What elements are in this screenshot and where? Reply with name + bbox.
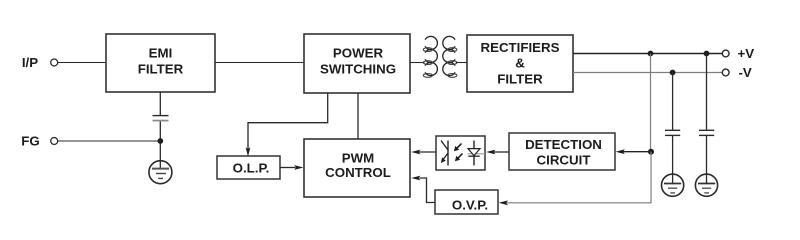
svg-text:FILTER: FILTER (497, 72, 543, 87)
block PWM CONTROL (304, 139, 410, 197)
arrow into PWM CONTROL right edge (from O.V.P.) (411, 176, 420, 181)
svg-text:&: & (515, 56, 525, 71)
capacitor Y-cap top plate (153, 115, 169, 117)
wire O.L.P. to PWM CONTROL (280, 167, 296, 169)
svg-text:O.L.P.: O.L.P. (233, 161, 270, 176)
svg-text:SWITCHING: SWITCHING (320, 62, 396, 77)
arrow into PWM CONTROL left edge (294, 165, 303, 170)
ground earth symbol (C2) (695, 174, 717, 196)
svg-text:+V: +V (738, 46, 755, 61)
wire feedback down to O.V.P. (506, 152, 651, 203)
terminal I/P circle (51, 59, 58, 66)
arrow into PWM CONTROL right edge (from optocoupler) (411, 150, 420, 155)
optocoupler U1 light arrows (454, 144, 463, 162)
wire capacitor C1 to ground (672, 136, 674, 183)
wire capacitor C2 to ground (706, 136, 708, 183)
terminal -V circle (722, 69, 729, 76)
wire optocoupler to PWM CONTROL (419, 151, 436, 153)
block EMI FILTER (106, 34, 215, 92)
svg-text:FG: FG (21, 134, 39, 149)
wire -V rail (573, 72, 722, 74)
svg-text:CONTROL: CONTROL (325, 165, 391, 180)
svg-text:I/P: I/P (22, 55, 38, 70)
arrow into optocoupler right edge (486, 150, 495, 155)
wire POWER SWITCHING to PWM CONTROL (357, 93, 359, 139)
wire DETECTION CIRCUIT to optocoupler (493, 151, 509, 153)
terminal +V circle (722, 50, 729, 57)
wire -V rail down to capacitor C1 (672, 73, 674, 130)
svg-text:-V: -V (739, 65, 752, 80)
capacitor C1 (665, 130, 680, 135)
arrow into O.V.P. right edge (499, 200, 508, 205)
node junction dot on +V rail (cap tap) (704, 51, 710, 57)
svg-text:RECTIFIERS: RECTIFIERS (480, 40, 559, 55)
svg-text:CIRCUIT: CIRCUIT (537, 152, 591, 167)
wire junction to DETECTION CIRCUIT (623, 151, 651, 153)
wire transformer secondary to RECTIFIERS (456, 62, 467, 64)
arrow into DETECTION CIRCUIT right edge (616, 149, 625, 154)
svg-text:POWER: POWER (333, 46, 384, 61)
transformer T1 secondary winding (443, 36, 457, 77)
wire feedback vertical from +V rail (650, 54, 652, 152)
node FG junction dot (157, 138, 163, 144)
optocoupler U1 box (436, 136, 485, 170)
optocoupler U1 phototransistor (441, 141, 448, 166)
node junction dot on +V rail (feedback tap) (648, 51, 654, 57)
wire POWER SWITCHING to O.L.P. (248, 93, 328, 151)
ground earth symbol (FG) (149, 161, 172, 184)
block DETECTION CIRCUIT (509, 133, 615, 170)
svg-text:FILTER: FILTER (138, 62, 184, 77)
wire +V rail down to capacitor C2 (706, 54, 708, 130)
terminal FG circle (51, 138, 58, 145)
svg-text:EMI: EMI (149, 46, 173, 61)
svg-text:PWM: PWM (342, 151, 375, 166)
block O.L.P. (217, 156, 280, 179)
transformer T1 primary winding (423, 36, 437, 77)
ground earth symbol (C1) (662, 174, 684, 196)
node junction dot on detection feed (648, 149, 654, 155)
block O.V.P. (435, 190, 498, 214)
wire EMI FILTER to POWER SWITCHING (215, 62, 304, 64)
wire +V rail (573, 53, 722, 55)
block RECTIFIERS & FILTER (467, 35, 573, 92)
optocoupler U1 LED diode (468, 141, 486, 166)
wire O.V.P. to PWM CONTROL (420, 178, 436, 203)
wire Y-cap to FG node (159, 122, 161, 169)
capacitor C2 (699, 130, 714, 135)
arrow into O.L.P. top edge (246, 147, 251, 156)
block POWER SWITCHING (304, 34, 410, 93)
wire FG to junction (58, 140, 160, 142)
node junction dot on -V rail (cap tap) (670, 70, 676, 76)
svg-text:DETECTION: DETECTION (525, 137, 602, 152)
wire I/P to EMI FILTER (58, 62, 106, 64)
svg-text:O.V.P.: O.V.P. (452, 197, 488, 212)
capacitor Y-cap bottom plate (153, 120, 169, 122)
wire EMI FILTER bottom to Y-capacitor (159, 92, 161, 115)
wire POWER SWITCHING to transformer primary (410, 62, 425, 64)
